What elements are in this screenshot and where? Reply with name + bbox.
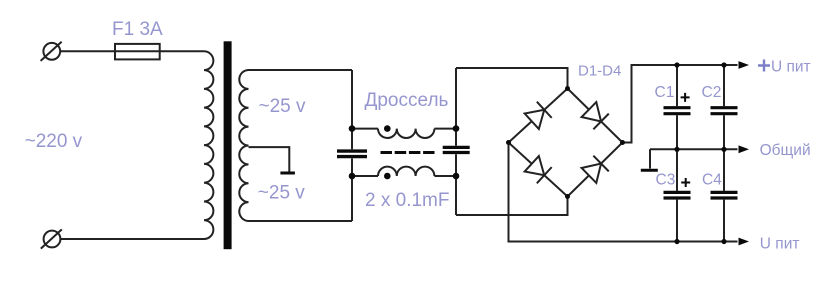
- svg-text:Общий: Общий: [760, 142, 811, 159]
- svg-text:C2: C2: [702, 84, 722, 101]
- svg-text:C1: C1: [655, 84, 675, 101]
- svg-text:~25 v: ~25 v: [259, 96, 307, 117]
- svg-text:U пит: U пит: [771, 58, 811, 75]
- svg-text:C3: C3: [656, 171, 676, 188]
- svg-text:F1 3A: F1 3A: [112, 19, 163, 40]
- svg-text:Дроссель: Дроссель: [365, 90, 449, 111]
- svg-text:~25 v: ~25 v: [258, 183, 306, 204]
- svg-text:C4: C4: [702, 171, 722, 188]
- svg-text:2 x 0.1mF: 2 x 0.1mF: [365, 190, 449, 211]
- svg-text:~220 v: ~220 v: [25, 131, 83, 152]
- svg-text:U пит: U пит: [760, 235, 800, 252]
- svg-text:D1-D4: D1-D4: [578, 63, 621, 80]
